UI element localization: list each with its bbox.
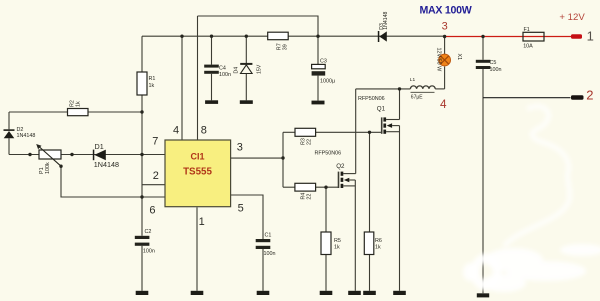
svg-text:1N4148: 1N4148 [383,12,389,30]
svg-text:100n: 100n [143,249,155,255]
svg-text:10A: 10A [523,44,533,50]
svg-text:R6: R6 [375,238,382,244]
svg-text:1k: 1k [375,245,381,251]
svg-text:C3: C3 [320,59,327,65]
svg-text:TS555: TS555 [183,167,212,178]
svg-text:C4: C4 [219,66,226,72]
svg-text:4: 4 [173,124,179,136]
svg-text:D4: D4 [234,67,240,74]
svg-text:C1: C1 [265,233,272,239]
svg-text:1: 1 [199,216,205,228]
svg-text:C2: C2 [145,229,152,235]
svg-text:8: 8 [201,124,207,136]
svg-text:R1: R1 [149,76,156,82]
svg-text:RFP50N06: RFP50N06 [358,96,385,102]
svg-text:5: 5 [238,202,244,214]
svg-text:7: 7 [152,135,158,147]
svg-text:CI1: CI1 [190,152,204,162]
svg-text:100n: 100n [264,251,276,257]
svg-text:X1: X1 [456,54,462,61]
svg-text:1k: 1k [149,83,155,89]
svg-text:1000µ: 1000µ [320,79,335,85]
svg-text:R5: R5 [334,238,341,244]
svg-text:+ 12V: + 12V [559,12,585,23]
svg-text:Q2: Q2 [336,163,345,170]
svg-text:1N4148: 1N4148 [94,160,119,169]
svg-text:22: 22 [306,139,312,145]
svg-text:RFP50N06: RFP50N06 [315,151,342,157]
svg-text:15V: 15V [256,64,262,74]
svg-text:6: 6 [149,205,155,217]
svg-text:MAX 100W: MAX 100W [420,5,472,17]
svg-text:D1: D1 [95,142,104,151]
svg-text:22: 22 [307,194,313,200]
svg-text:4: 4 [440,97,447,111]
svg-text:3: 3 [237,142,243,154]
svg-text:2: 2 [586,88,593,103]
svg-text:1N4148: 1N4148 [17,133,36,139]
svg-text:F1: F1 [524,27,530,33]
svg-text:C5: C5 [490,60,497,66]
svg-text:1k: 1k [75,101,81,107]
svg-text:Q1: Q1 [377,105,386,112]
svg-text:3: 3 [442,20,448,32]
svg-text:100k: 100k [45,162,51,174]
svg-text:L1: L1 [410,77,416,83]
svg-text:39: 39 [283,44,289,50]
svg-text:2: 2 [153,170,159,182]
svg-text:67µE: 67µE [411,94,423,100]
svg-text:12V/50 W: 12V/50 W [435,48,441,73]
svg-text:100n: 100n [490,67,502,73]
svg-text:100n: 100n [219,72,231,78]
svg-text:1: 1 [587,28,594,43]
svg-text:1k: 1k [334,245,340,251]
